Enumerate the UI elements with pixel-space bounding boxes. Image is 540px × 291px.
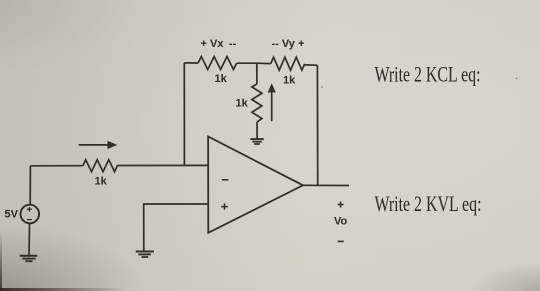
wire R2 to middle node xyxy=(237,62,257,64)
voltage arrow beside R4 xyxy=(268,83,276,121)
wire non-inverting input xyxy=(144,204,209,252)
wire input left segment xyxy=(30,165,82,167)
label -Vy+ xyxy=(272,38,305,50)
text: Write 2 KCL eq: xyxy=(375,62,481,87)
svg-text:-- Vy +: -- Vy + xyxy=(272,38,305,50)
svg-text:Vo: Vo xyxy=(334,216,348,228)
resistor R4 1k vertical xyxy=(252,84,262,122)
wire R4 bottom to ground xyxy=(256,122,258,139)
wire source bottom to ground xyxy=(28,223,31,256)
wire output xyxy=(303,184,349,186)
svg-text:1k: 1k xyxy=(283,75,296,87)
label 1k (R4) xyxy=(236,98,249,110)
text: Write 2 KVL eq: xyxy=(375,191,482,216)
label output minus xyxy=(338,240,344,242)
wire top-left segment xyxy=(184,62,198,64)
svg-text:+ Vx --: + Vx -- xyxy=(201,38,237,50)
label 1k (R3) xyxy=(283,75,296,87)
svg-text:5V: 5V xyxy=(5,209,19,221)
resistor R2 1k (Vx) xyxy=(198,57,237,70)
ground under source V1 xyxy=(20,256,38,262)
op-amp U1 xyxy=(208,137,303,233)
node A: feedback tap vertical wire xyxy=(183,63,185,166)
current arrow above R1 xyxy=(79,141,118,149)
label +Vx- xyxy=(201,38,237,50)
svg-text:1k: 1k xyxy=(236,98,249,110)
source V1 5V circle xyxy=(21,205,40,224)
svg-text:1k: 1k xyxy=(95,176,108,188)
label 5V xyxy=(5,209,19,221)
ground under R4 xyxy=(250,139,263,144)
paper speck xyxy=(321,86,323,88)
label 1k (R1) xyxy=(95,176,108,188)
resistor R3 1k (Vy) xyxy=(271,57,305,70)
label output + xyxy=(338,202,344,208)
label 1k (R2) xyxy=(215,73,228,85)
resistor R1 1k xyxy=(83,160,118,172)
paper speck xyxy=(516,78,518,80)
svg-text:Write 2 KCL eq:: Write 2 KCL eq: xyxy=(375,62,481,87)
wire input right segment to op-amp inverting input xyxy=(117,164,208,166)
ground at non-inverting input xyxy=(136,252,154,258)
wire from source top up to input node xyxy=(29,166,31,205)
wire middle node to R3 xyxy=(257,62,271,64)
svg-text:1k: 1k xyxy=(215,73,228,85)
label Vo xyxy=(334,216,348,228)
svg-text:Write 2 KVL eq:: Write 2 KVL eq: xyxy=(375,191,482,216)
wire R3 to top-right corner xyxy=(305,64,318,66)
wire right feedback vertical xyxy=(316,65,318,185)
node B: middle top node to R4 xyxy=(256,63,258,84)
